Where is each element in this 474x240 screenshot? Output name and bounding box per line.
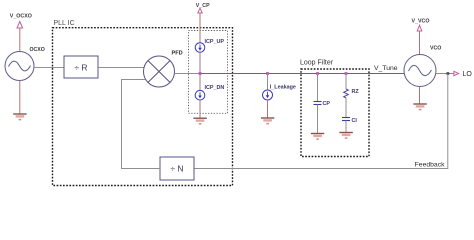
ground (193, 118, 206, 124)
wire feedback vertical (447, 74, 449, 170)
capacitor CP (314, 101, 331, 107)
junction node I_Leakage tap (266, 72, 269, 75)
wire (345, 98, 347, 118)
svg-text:LO: LO (463, 71, 473, 78)
wire (419, 31, 421, 55)
svg-text:V_CP: V_CP (196, 3, 210, 9)
ground (311, 134, 324, 140)
divider R (÷R block) (64, 56, 98, 78)
resistor RZ (344, 89, 360, 98)
ground (413, 104, 426, 110)
wire (19, 28, 21, 52)
port arrow LO (454, 71, 459, 75)
svg-text:PLL IC: PLL IC (54, 20, 75, 27)
wire (317, 105, 319, 134)
wire (267, 73, 269, 90)
current source ICP_UP (195, 39, 224, 52)
wire (345, 121, 347, 133)
svg-text:VCO: VCO (430, 46, 441, 52)
junction node CP tap (316, 72, 319, 75)
PLL IC dashed box (53, 20, 233, 186)
capacitor CI (342, 118, 357, 125)
current source I_Leakage (263, 84, 296, 100)
ICP dotted box (189, 31, 228, 114)
svg-text:÷ N: ÷ N (170, 164, 183, 174)
wire (345, 73, 347, 89)
wire (121, 79, 123, 169)
current source ICP_DN (195, 85, 224, 100)
wire (121, 79, 146, 81)
svg-text:RZ: RZ (352, 89, 360, 95)
svg-text:Feedback: Feedback (415, 161, 445, 168)
svg-text:I_Leakage: I_Leakage (270, 84, 296, 90)
source arrow V_CP (198, 8, 202, 13)
wire divider R to mixer (98, 67, 144, 69)
svg-text:ICP_UP: ICP_UP (205, 39, 225, 45)
wire (419, 87, 421, 105)
wire (199, 100, 201, 118)
Loop Filter dashed box (300, 60, 369, 157)
svg-text:÷ R: ÷ R (74, 63, 87, 73)
oscillator VCO (404, 46, 441, 87)
wire (199, 13, 201, 43)
mixer PFD (144, 50, 183, 87)
svg-text:V_OCXO: V_OCXO (10, 13, 32, 19)
svg-text:V_VCO: V_VCO (412, 19, 430, 25)
wire VCO to LO (436, 73, 454, 75)
svg-text:CP: CP (323, 101, 331, 107)
wire (267, 100, 269, 118)
wire divider N to mixer feedback (121, 168, 160, 170)
svg-text:OCXO: OCXO (30, 47, 45, 53)
wire OCXO to divider R (34, 67, 64, 69)
oscillator OCXO (5, 47, 45, 81)
junction node RZ tap (345, 72, 348, 75)
wire charge pump net to VCO (200, 73, 404, 75)
wire (19, 81, 21, 115)
wire feedback bottom (194, 168, 448, 170)
source arrow V_OCXO (17, 22, 23, 29)
junction node charge pump output (199, 72, 202, 75)
svg-text:V_Tune: V_Tune (374, 65, 398, 72)
ground (13, 114, 26, 120)
svg-text:Loop Filter: Loop Filter (300, 60, 334, 67)
svg-text:CI: CI (352, 118, 358, 124)
junction node LO tap (447, 72, 450, 75)
wire (199, 52, 201, 90)
ground (261, 118, 274, 124)
ground (339, 133, 352, 139)
wire mixer out (175, 73, 201, 75)
svg-text:PFD: PFD (172, 50, 183, 56)
svg-text:ICP_DN: ICP_DN (205, 85, 225, 91)
divider N (÷N block) (160, 157, 194, 180)
wire (317, 73, 319, 101)
source arrow V_VCO (417, 25, 422, 31)
